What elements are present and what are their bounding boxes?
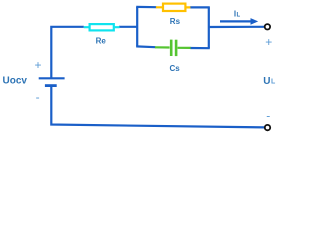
current arrow IL	[220, 18, 258, 25]
wire: Re to RC loop left node	[119, 26, 138, 28]
RC loop bottom edge segments	[136, 45, 155, 48]
svg-text:Cs: Cs	[170, 64, 181, 73]
svg-text:-: -	[266, 109, 270, 123]
capacitor Cs	[155, 40, 191, 57]
svg-text:+: +	[265, 35, 272, 49]
svg-text:U: U	[263, 76, 270, 87]
svg-text:Re: Re	[96, 36, 107, 45]
battery Uocv top plate	[39, 77, 65, 79]
svg-text:L: L	[237, 12, 241, 18]
svg-text:Rs: Rs	[170, 17, 181, 26]
wire: left vertical top (battery + to top-left corner) and top wire to Re	[51, 27, 84, 78]
resistor Rs	[156, 4, 191, 11]
terminal - (bottom right circle)	[265, 125, 270, 130]
svg-text:L: L	[271, 79, 276, 86]
battery Uocv bottom plate	[45, 84, 57, 87]
resistor Re	[84, 24, 120, 30]
terminal + (top right circle)	[265, 24, 270, 29]
svg-text:Uocv: Uocv	[3, 76, 28, 87]
wire: battery - down and bottom wire to - terminal	[50, 86, 264, 128]
svg-text:+: +	[35, 58, 42, 72]
RC loop right edge	[208, 7, 210, 48]
svg-text:-: -	[36, 90, 40, 104]
wire: loop right node to + terminal	[209, 26, 265, 28]
RC loop left edge	[136, 7, 138, 47]
RC loop top edge segments	[136, 6, 156, 8]
